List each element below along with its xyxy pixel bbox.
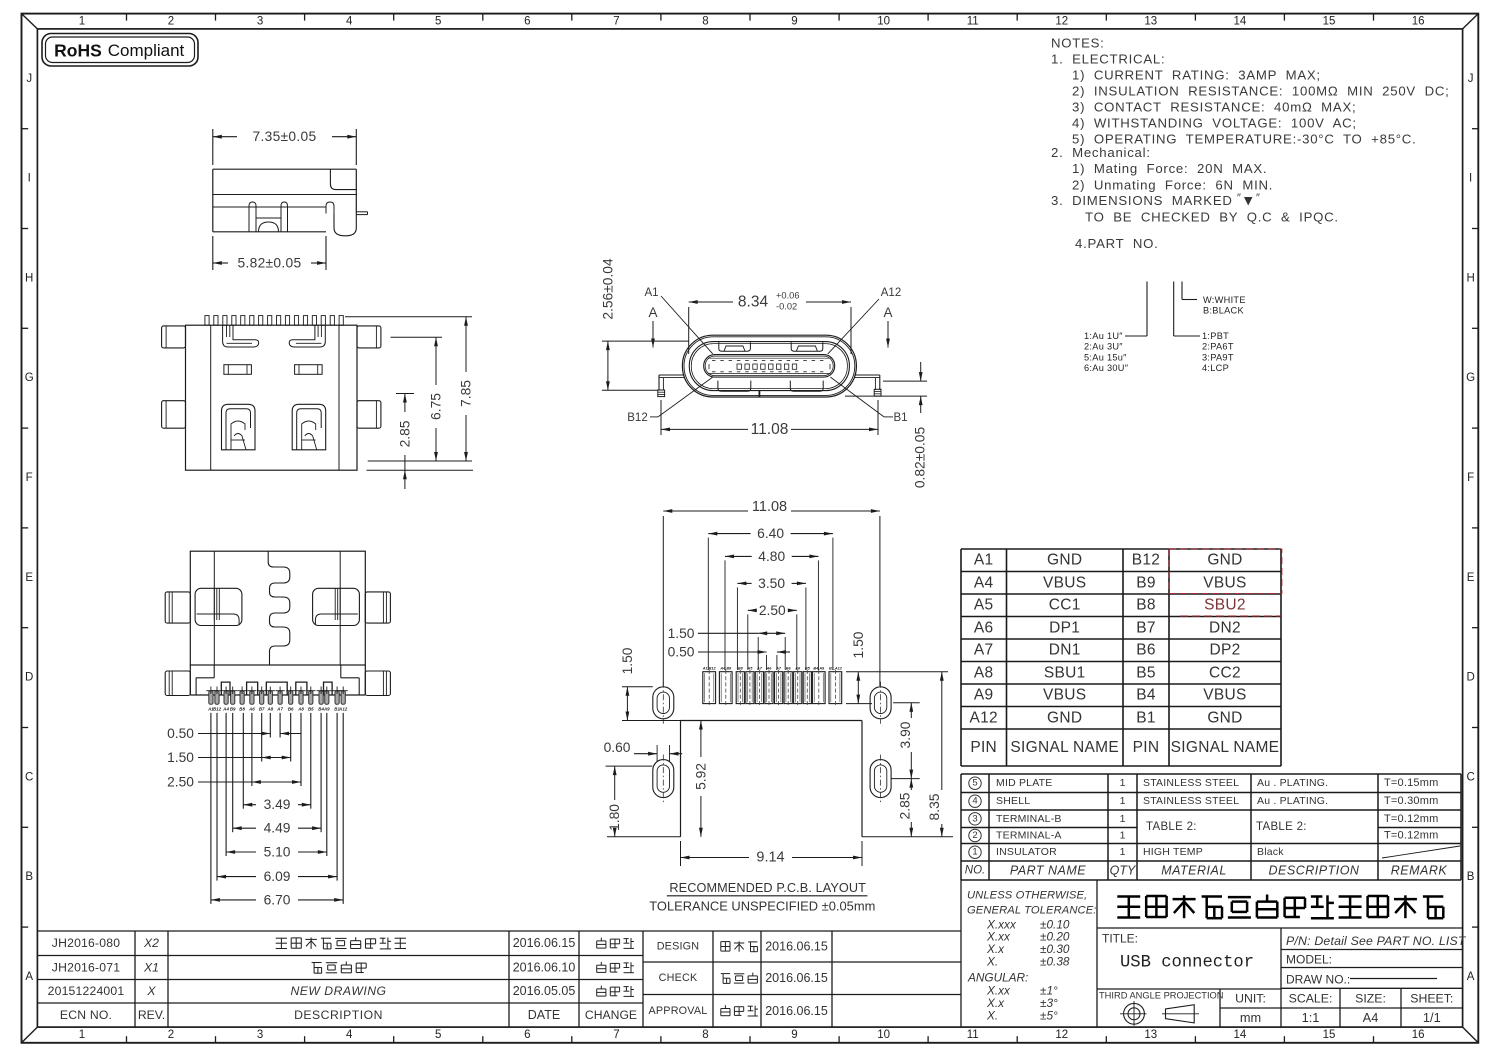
svg-text:A9: A9 [323,706,330,711]
svg-text:Compliant: Compliant [108,41,185,60]
svg-text:12: 12 [1055,1029,1068,1041]
svg-text:CC1: CC1 [1049,597,1081,614]
svg-text:B6: B6 [288,706,294,711]
svg-text:5: 5 [972,778,977,789]
svg-text:1: 1 [79,1029,85,1041]
svg-text:D: D [25,672,33,684]
svg-text:B7: B7 [1136,619,1156,636]
svg-text:JH2016-080: JH2016-080 [52,936,120,950]
svg-text:RECOMMENDED P.C.B. LAYOUT: RECOMMENDED P.C.B. LAYOUT [669,881,866,895]
svg-text:″: ″ [1237,192,1241,204]
svg-text:1: 1 [1120,795,1126,807]
svg-text:X2: X2 [143,936,159,950]
svg-text:B1: B1 [893,412,907,424]
svg-text:1:1: 1:1 [1302,1010,1320,1025]
svg-text:UNIT:: UNIT: [1235,992,1266,1006]
svg-text:0.50: 0.50 [167,726,194,741]
svg-text:A6: A6 [974,619,994,636]
svg-text:A7: A7 [974,642,994,659]
svg-text:2016.06.15: 2016.06.15 [513,936,576,950]
svg-text:6.70: 6.70 [264,892,291,907]
svg-text:TABLE 2:: TABLE 2: [1146,821,1197,833]
svg-text:2.85: 2.85 [898,792,913,819]
svg-text:B8: B8 [1136,597,1156,614]
svg-text:2:PA6T: 2:PA6T [1202,342,1234,352]
svg-text:0.60: 0.60 [604,740,631,755]
svg-text:J: J [1468,73,1474,85]
svg-text:2.50: 2.50 [759,603,786,618]
svg-text:HIGH TEMP: HIGH TEMP [1143,846,1203,858]
svg-text:E: E [25,572,33,584]
svg-text:ANGULAR:: ANGULAR: [967,971,1028,985]
svg-text:QTY: QTY [1110,864,1137,878]
svg-text:3.90: 3.90 [898,721,913,748]
svg-text:A12: A12 [338,706,348,711]
svg-text:5.10: 5.10 [264,845,291,860]
svg-text:4) WITHSTANDING VOLTAGE: 100V: 4) WITHSTANDING VOLTAGE: 100V AC; [1072,116,1357,131]
svg-text:C: C [1466,771,1474,783]
svg-text:1.50: 1.50 [167,750,194,765]
svg-text:0.82±0.05: 0.82±0.05 [912,427,927,489]
svg-text:GND: GND [1047,709,1082,726]
svg-text:SBU1: SBU1 [1044,664,1086,681]
svg-text:2: 2 [168,1029,174,1041]
svg-text:2: 2 [168,15,174,27]
svg-text:X: X [146,984,156,998]
svg-text:TOLERANCE UNSPECIFIED ±0.05m: TOLERANCE UNSPECIFIED ±0.05mm [649,898,875,913]
svg-text:H: H [1466,272,1474,284]
svg-text:1.50: 1.50 [851,631,866,658]
svg-text:2. Mechanical:: 2. Mechanical: [1051,145,1151,160]
svg-text:2: 2 [972,830,977,841]
svg-text:B7: B7 [259,706,265,711]
svg-text:7: 7 [613,1029,619,1041]
svg-text:STAINLESS STEEL: STAINLESS STEEL [1143,777,1239,789]
svg-text:5.92: 5.92 [693,763,708,790]
svg-text:GND: GND [1207,709,1242,726]
svg-text:F: F [1467,472,1474,484]
svg-text:VBUS: VBUS [1203,687,1246,704]
svg-text:A7: A7 [276,706,283,711]
svg-text:1) CURRENT RATING: 3AMP MAX;: 1) CURRENT RATING: 3AMP MAX; [1072,68,1321,83]
svg-text:1: 1 [1120,813,1126,825]
svg-text:A: A [25,971,33,983]
svg-text:6.09: 6.09 [264,869,291,884]
svg-text:A4,B9: A4,B9 [719,667,732,671]
svg-text:4: 4 [346,1029,353,1041]
svg-text:DESCRIPTION: DESCRIPTION [294,1008,383,1022]
svg-text:9.14: 9.14 [756,850,784,866]
svg-text:P/N: Detail See PART NO. LIST: P/N: Detail See PART NO. LIST [1286,934,1467,948]
svg-text:1.80: 1.80 [607,804,622,831]
svg-text:2.85: 2.85 [397,420,412,447]
svg-text:1:Au 1U″: 1:Au 1U″ [1084,331,1123,341]
svg-text:B4,A9: B4,A9 [813,667,825,671]
svg-text:1/1: 1/1 [1423,1010,1441,1025]
svg-text:15: 15 [1323,1029,1336,1041]
svg-text:T=0.30mm: T=0.30mm [1384,795,1438,807]
svg-text:3: 3 [257,15,263,27]
svg-text:A12: A12 [969,709,997,726]
svg-text:8.35: 8.35 [927,793,942,820]
svg-text:A9: A9 [974,687,994,704]
svg-text:6: 6 [524,15,530,27]
svg-text:16: 16 [1412,15,1425,27]
svg-text:2.56±0.04: 2.56±0.04 [601,258,616,320]
svg-text:DP1: DP1 [1049,619,1080,636]
svg-text:F: F [26,472,33,484]
svg-text:GND: GND [1047,552,1082,569]
svg-text:VBUS: VBUS [1043,687,1086,704]
svg-text:B9: B9 [230,706,236,711]
svg-text:±0.38: ±0.38 [1040,954,1070,968]
svg-text:DESIGN: DESIGN [657,941,700,953]
svg-text:1: 1 [972,847,977,858]
svg-text:Black: Black [1257,846,1284,858]
svg-text:11.08: 11.08 [751,421,789,438]
svg-text:14: 14 [1234,1029,1247,1041]
svg-text:I: I [1469,173,1472,185]
svg-text:A8: A8 [974,664,994,681]
svg-text:1.50: 1.50 [668,626,695,641]
svg-text:9: 9 [791,15,797,27]
svg-text:4: 4 [346,15,353,27]
svg-text:NO.: NO. [965,865,985,877]
svg-text:C: C [25,771,33,783]
svg-text:TERMINAL-A: TERMINAL-A [996,830,1062,842]
svg-text:1: 1 [1120,846,1126,858]
svg-text:″: ″ [1256,192,1260,204]
svg-text:APPROVAL: APPROVAL [648,1005,707,1017]
svg-text:A8: A8 [794,667,801,671]
svg-text:A: A [883,305,892,320]
svg-text:2016.06.15: 2016.06.15 [765,1004,828,1018]
svg-text:4:LCP: 4:LCP [1202,363,1229,373]
svg-text:8.34: 8.34 [738,294,769,311]
svg-text:A4: A4 [1363,1010,1379,1025]
svg-text:6:Au 30U″: 6:Au 30U″ [1084,363,1129,373]
svg-text:5: 5 [435,15,441,27]
svg-text:4.PART NO.: 4.PART NO. [1075,236,1159,251]
svg-text:W:WHITE: W:WHITE [1203,295,1246,305]
svg-text:3:PA9T: 3:PA9T [1202,352,1234,362]
svg-text:B6: B6 [1136,642,1156,659]
svg-text:13: 13 [1144,15,1157,27]
svg-text:2016.06.10: 2016.06.10 [513,961,576,975]
svg-text:3: 3 [972,813,977,824]
svg-text:J: J [26,73,32,85]
svg-text:B: B [25,871,33,883]
svg-text:JH2016-071: JH2016-071 [52,961,120,975]
svg-text:5:Au 15u″: 5:Au 15u″ [1084,352,1127,362]
svg-text:CHANGE: CHANGE [585,1008,637,1022]
svg-text:9: 9 [791,1029,797,1041]
svg-text:A1: A1 [974,552,994,569]
svg-text:DRAW NO.:: DRAW NO.: [1286,973,1350,987]
svg-text:STAINLESS STEEL: STAINLESS STEEL [1143,795,1239,807]
svg-text:A: A [1467,971,1475,983]
svg-text:2.50: 2.50 [167,775,194,790]
svg-text:2016.05.05: 2016.05.05 [513,984,576,998]
svg-text:6.40: 6.40 [757,526,784,541]
svg-text:1: 1 [1120,830,1126,842]
svg-text:SIGNAL NAME: SIGNAL NAME [1010,739,1119,756]
svg-text:B12: B12 [213,706,222,711]
svg-text:B5: B5 [308,706,314,711]
svg-text:A5: A5 [974,597,994,614]
svg-text:B4: B4 [1136,687,1156,704]
svg-text:PART NAME: PART NAME [1010,864,1086,878]
svg-text:PIN: PIN [970,739,997,756]
svg-text:TITLE:: TITLE: [1102,932,1138,946]
svg-text:4.49: 4.49 [264,821,291,836]
svg-text:2) INSULATION RESISTANCE: 100M: 2) INSULATION RESISTANCE: 100MΩ MIN 250V… [1072,84,1450,99]
svg-text:0.50: 0.50 [668,645,695,660]
svg-text:CC2: CC2 [1209,664,1241,681]
svg-text:X.: X. [986,954,998,968]
svg-text:B5: B5 [1136,664,1156,681]
svg-text:7: 7 [613,15,619,27]
svg-text:VBUS: VBUS [1043,574,1086,591]
svg-text:SCALE:: SCALE: [1289,992,1333,1006]
svg-text:CHECK: CHECK [659,972,698,984]
svg-text:H: H [25,272,33,284]
svg-text:X.: X. [986,1009,998,1023]
svg-text:A4: A4 [974,574,994,591]
svg-text:1.50: 1.50 [620,647,635,674]
svg-text:THIRD ANGLE PROJECTION: THIRD ANGLE PROJECTION [1099,991,1224,1001]
svg-text:8: 8 [702,15,708,27]
svg-text:mm: mm [1240,1010,1261,1025]
svg-text:1: 1 [1120,777,1126,789]
svg-text:3.49: 3.49 [264,797,291,812]
svg-text:1. ELECTRICAL:: 1. ELECTRICAL: [1051,52,1165,67]
svg-text:3) CONTACT RESISTANCE: 40mΩ MA: 3) CONTACT RESISTANCE: 40mΩ MAX; [1072,100,1356,115]
svg-text:11: 11 [967,1029,979,1041]
svg-text:TABLE 2:: TABLE 2: [1256,821,1307,833]
svg-text:A7: A7 [756,667,763,671]
svg-text:A1: A1 [644,287,658,299]
svg-text:T=0.12mm: T=0.12mm [1384,813,1438,825]
svg-text:A12: A12 [881,287,901,299]
svg-text:G: G [25,372,34,384]
svg-text:Au . PLATING.: Au . PLATING. [1257,777,1328,789]
svg-text:G: G [1466,372,1475,384]
svg-text:INSULATOR: INSULATOR [996,846,1057,858]
svg-text:14: 14 [1234,15,1247,27]
svg-text:TERMINAL-B: TERMINAL-B [996,813,1062,825]
svg-text:NEW DRAWING: NEW DRAWING [290,984,386,998]
svg-text:3: 3 [257,1029,263,1041]
svg-text:2) Unmating Force: 6N MIN.: 2) Unmating Force: 6N MIN. [1072,178,1273,193]
svg-text:SIGNAL NAME: SIGNAL NAME [1171,739,1280,756]
svg-text:X1: X1 [143,961,159,975]
svg-text:B9: B9 [1136,574,1156,591]
svg-text:SIZE:: SIZE: [1355,992,1386,1006]
svg-text:A6: A6 [248,706,255,711]
svg-text:B12: B12 [1132,552,1160,569]
svg-text:B1,A12: B1,A12 [829,667,843,671]
svg-text:GND: GND [1207,552,1242,569]
svg-text:REMARK: REMARK [1391,864,1448,878]
svg-text:A8: A8 [297,706,304,711]
svg-text:RoHS: RoHS [54,41,102,61]
svg-text:4: 4 [972,796,977,807]
svg-text:16: 16 [1412,1029,1425,1041]
svg-text:11.08: 11.08 [752,499,787,515]
svg-text:6: 6 [524,1029,530,1041]
svg-text:12: 12 [1055,15,1068,27]
svg-text:A4: A4 [222,706,229,711]
svg-text:A1,B12: A1,B12 [702,667,717,671]
svg-text:15: 15 [1323,15,1336,27]
svg-text:3. DIMENSIONS MARKED: 3. DIMENSIONS MARKED [1051,193,1233,208]
svg-text:NOTES:: NOTES: [1051,36,1105,51]
svg-text:USB connector: USB connector [1120,954,1254,973]
svg-text:T=0.12mm: T=0.12mm [1384,830,1438,842]
svg-text:7.85: 7.85 [459,380,474,407]
svg-text:10: 10 [877,15,890,27]
svg-text:DATE: DATE [528,1008,560,1022]
svg-text:D: D [1466,672,1474,684]
svg-text:5: 5 [435,1029,441,1041]
svg-text:MODEL:: MODEL: [1286,953,1332,967]
svg-text:MID PLATE: MID PLATE [996,777,1052,789]
svg-text:SHEET:: SHEET: [1410,992,1453,1006]
svg-text:1) Mating Force: 20N MAX.: 1) Mating Force: 20N MAX. [1072,161,1267,176]
svg-text:13: 13 [1144,1029,1157,1041]
svg-text:DESCRIPTION: DESCRIPTION [1269,864,1360,878]
svg-text:3.50: 3.50 [758,576,785,591]
svg-text:4.80: 4.80 [758,549,785,564]
svg-text:Au . PLATING.: Au . PLATING. [1257,795,1328,807]
svg-text:ECN NO.: ECN NO. [60,1008,112,1022]
svg-text:UNLESS OTHERWISE,: UNLESS OTHERWISE, [967,890,1087,902]
svg-text:MATERIAL: MATERIAL [1161,864,1227,878]
svg-text:T=0.15mm: T=0.15mm [1384,777,1438,789]
svg-text:A7: A7 [775,667,782,671]
svg-text:SHELL: SHELL [996,795,1030,807]
svg-text:A: A [648,305,657,320]
svg-text:E: E [1467,572,1475,584]
svg-text:I: I [28,173,31,185]
svg-text:SBU2: SBU2 [1204,597,1246,614]
svg-text:VBUS: VBUS [1203,574,1246,591]
svg-text:±5°: ±5° [1040,1009,1058,1023]
svg-text:DP2: DP2 [1209,642,1240,659]
svg-text:GENERAL TOLERANCE:: GENERAL TOLERANCE: [967,905,1096,917]
svg-text:11: 11 [967,15,979,27]
svg-text:-0.02: -0.02 [776,302,797,312]
svg-text:B:BLACK: B:BLACK [1203,306,1244,316]
svg-text:8: 8 [702,1029,708,1041]
svg-text:TO BE CHECKED BY Q.C & IPQC.: TO BE CHECKED BY Q.C & IPQC. [1085,210,1339,225]
svg-text:20151224001: 20151224001 [48,984,125,998]
svg-text:1:PBT: 1:PBT [1202,331,1229,341]
svg-text:B1: B1 [1136,709,1156,726]
svg-text:REV.: REV. [138,1008,165,1022]
svg-text:DN1: DN1 [1049,642,1081,659]
svg-text:A8: A8 [266,706,273,711]
svg-text:2016.06.15: 2016.06.15 [765,940,828,954]
svg-text:B8: B8 [239,706,245,711]
svg-text:B12: B12 [627,412,647,424]
svg-text:+0.06: +0.06 [776,291,800,301]
svg-text:B: B [1467,871,1475,883]
svg-text:1: 1 [79,15,85,27]
svg-text:10: 10 [877,1029,890,1041]
svg-text:2:Au 3U″: 2:Au 3U″ [1084,342,1123,352]
svg-text:7.35±0.05: 7.35±0.05 [253,129,317,144]
svg-text:DN2: DN2 [1209,619,1241,636]
svg-text:PIN: PIN [1133,739,1160,756]
svg-text:2016.06.15: 2016.06.15 [765,971,828,985]
svg-text:5.82±0.05: 5.82±0.05 [238,256,302,271]
svg-text:6.75: 6.75 [429,393,444,420]
